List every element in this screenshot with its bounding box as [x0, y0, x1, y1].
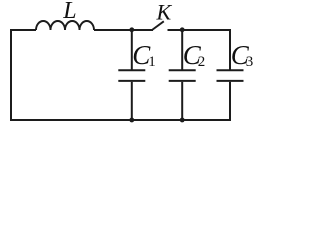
- wire bottom: [10, 119, 231, 121]
- capacitor C2: [169, 30, 196, 120]
- node junction C2 bottom: [180, 118, 185, 123]
- wire top-left segment: [11, 29, 36, 31]
- node junction C1 bottom: [129, 118, 134, 123]
- wire left side: [10, 29, 12, 121]
- svg-text:K: K: [156, 0, 173, 25]
- node junction C2 top: [180, 27, 185, 32]
- label C3: [231, 40, 254, 70]
- svg-text:3: 3: [246, 54, 254, 70]
- capacitor C1: [118, 30, 145, 120]
- node junction C1 top: [129, 27, 134, 32]
- label C1: [132, 40, 156, 70]
- wire switch to top-right corner: [168, 29, 232, 31]
- svg-text:2: 2: [198, 54, 206, 70]
- inductor L: [36, 21, 94, 30]
- label C2: [183, 40, 206, 70]
- svg-text:1: 1: [148, 54, 156, 70]
- svg-text:L: L: [62, 0, 76, 24]
- capacitor C3: [217, 30, 244, 120]
- switch K lever: [153, 21, 164, 29]
- wire inductor to switch: [94, 29, 153, 31]
